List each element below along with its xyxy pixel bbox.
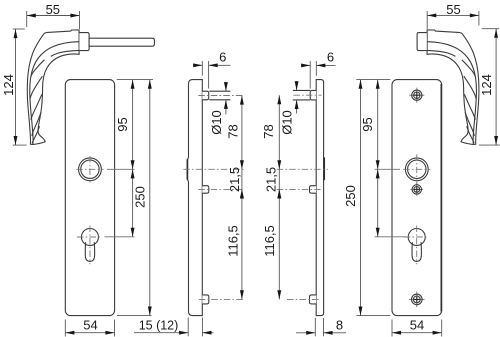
dim 55 left : extension lines: [26, 11, 28, 27]
inside plate right edge emphasis: [440, 84, 442, 312]
svg-text:124: 124: [479, 74, 494, 96]
bottom screw inner: [413, 296, 420, 303]
plate bottom extension line right: [357, 315, 391, 317]
svg-text:Ø10: Ø10: [279, 110, 294, 135]
dim 54 right : dimension line: [392, 332, 442, 334]
dim 21,5 left-profile : outside arrow below: [241, 189, 243, 197]
hub centre line inside profile: [277, 168, 328, 170]
lower screw boss inside: [310, 295, 317, 304]
profile inside plate outline: [316, 80, 323, 316]
dim 54 right : extension lines: [391, 320, 393, 337]
svg-text:250: 250: [133, 186, 148, 208]
dim 95 right : dimension line: [377, 80, 379, 170]
dim 6 right-profile : extension lines: [309, 61, 311, 89]
keyhole inside centre line horizontal: [404, 236, 429, 238]
lower screw centre line inside: [287, 298, 321, 300]
bushing centre line inside: [293, 94, 321, 96]
keyhole circle: [81, 229, 98, 246]
top screw cross ticks: [409, 94, 424, 96]
dim 15(12) : extension lines: [187, 318, 189, 337]
lower screw boss: [202, 295, 209, 304]
upper screw centre line inside: [277, 188, 321, 190]
dim 55 left : dimension line: [27, 15, 80, 17]
plate bottom extension line: [117, 315, 152, 317]
top screw outer: [412, 90, 422, 100]
lever hub hole outer: [79, 158, 102, 181]
handle (outside lever), side view: [27, 30, 79, 145]
dim 116,5 left-profile : dimension line: [241, 189, 243, 299]
svg-text:21,5: 21,5: [227, 167, 242, 192]
dim 6 left-profile : extension lines: [201, 61, 203, 76]
dim hub-to-keyhole right : dimension line: [377, 169, 379, 237]
hub boss edge inside (thick): [323, 157, 325, 180]
upper screw outer: [412, 185, 421, 194]
svg-text:8: 8: [336, 318, 343, 333]
dim 95 left : dimension line: [132, 80, 134, 170]
keyhole inside circle: [408, 229, 425, 246]
keyhole inside centre extension to dims: [375, 236, 407, 238]
spindle bar: [89, 38, 154, 46]
handle collar: [79, 33, 89, 51]
bushing centre line: [198, 95, 244, 97]
dim 124 right : extension lines: [482, 28, 499, 30]
dim 8 : dimension line with outside arrows: [296, 332, 315, 334]
upper screw boss inside: [310, 186, 317, 194]
dim 15(12) : dimension line with outside arrows: [134, 332, 188, 334]
dim 250 left : dimension line: [149, 80, 151, 316]
profile outside plate outline: [187, 80, 202, 316]
keyhole slot: [85, 242, 94, 261]
svg-text:78: 78: [261, 124, 276, 138]
svg-text:95: 95: [360, 117, 375, 131]
dim 55 right : dimension line: [427, 14, 479, 16]
svg-text:6: 6: [327, 50, 334, 65]
plate top extension line right: [356, 79, 390, 81]
dim 54 left : extension lines: [64, 320, 66, 337]
hub hole inside inner: [408, 160, 426, 178]
dim diam10 left-profile : extension lines: [209, 90, 230, 92]
top screw phillips cross: [414, 92, 420, 98]
svg-text:116,5: 116,5: [262, 225, 277, 257]
svg-text:55: 55: [446, 2, 460, 17]
dim 124 left : extension lines: [13, 28, 25, 30]
svg-text:6: 6: [219, 50, 226, 65]
upper screw cross ticks: [411, 188, 424, 190]
plate top extension line: [117, 79, 153, 81]
bottom screw outer: [412, 294, 423, 305]
svg-text:15 (12): 15 (12): [139, 319, 179, 333]
dim 250 right : dimension line: [360, 80, 362, 316]
guide bushing boss: [202, 91, 208, 100]
dim diam10 right-profile : extension lines: [293, 89, 310, 91]
hub inside centre line horizontal: [403, 168, 430, 170]
keyhole centre line horizontal: [77, 236, 102, 238]
dim 55 right : extension lines: [426, 11, 428, 29]
keyhole centre line vertical: [89, 226, 91, 265]
dim 6 right-profile : dimension line with outside arrows: [302, 64, 311, 66]
upper screw centre line: [198, 188, 244, 190]
handle (inside lever), mirrored side view: [427, 30, 479, 145]
top screw inner: [414, 92, 420, 98]
hub centre line vertical: [89, 156, 91, 183]
dim 54 left : dimension line: [65, 332, 114, 334]
svg-text:250: 250: [343, 185, 358, 207]
upper screw phillips cross: [414, 187, 419, 192]
hub inside centre extension to dims: [375, 168, 400, 170]
lever hub hole inner: [81, 160, 99, 178]
svg-text:21,5: 21,5: [263, 167, 278, 192]
hub inside centre line vertical: [416, 154, 418, 184]
dim 78 left-profile : dimension line: [241, 96, 243, 170]
svg-text:95: 95: [115, 117, 130, 131]
keyhole centre extension to dims: [105, 236, 135, 238]
svg-text:55: 55: [46, 2, 60, 17]
backplate outside, front view: [65, 80, 114, 316]
dim 116,5 right-profile : dimension line: [278, 189, 280, 299]
svg-text:54: 54: [83, 318, 97, 333]
dim diam10 right-profile : arrows: [296, 81, 298, 90]
hub boss edge (thick): [186, 159, 188, 180]
backplate inside, front view: [392, 80, 442, 316]
lower screw centre line: [199, 298, 244, 300]
keyhole inside slot: [412, 242, 421, 261]
bottom screw cross ticks: [409, 298, 425, 300]
handle collar inside: [417, 33, 427, 51]
dim 21,5 right-profile : outside arrow below: [278, 189, 280, 197]
hub centre line horizontal: [76, 168, 103, 170]
dim 6 left-profile : dimension line with outside arrows: [193, 64, 202, 66]
svg-text:Ø10: Ø10: [209, 110, 224, 135]
svg-text:78: 78: [225, 124, 240, 138]
svg-text:124: 124: [1, 74, 16, 96]
dim 124 left : dimension line: [15, 29, 17, 145]
hub hole inside outer: [405, 158, 428, 181]
keyhole inside centre line vertical: [416, 226, 418, 265]
dim 78 right-profile : dimension line: [278, 95, 280, 169]
dim diam10 left-profile : arrows: [225, 82, 227, 91]
svg-text:54: 54: [410, 318, 424, 333]
dim 124 right : dimension line: [495, 29, 497, 145]
hub centre line profile: [183, 168, 244, 170]
dim hub-to-keyhole left : dimension line: [132, 169, 134, 237]
bottom screw phillips cross: [414, 297, 419, 302]
hub centre extension to dims: [107, 168, 135, 170]
svg-text:116,5: 116,5: [226, 225, 241, 257]
upper screw inner: [414, 187, 420, 193]
upper screw boss: [202, 186, 209, 194]
guide bushing boss inside: [310, 90, 316, 100]
dim 8 : extension lines: [314, 318, 316, 336]
